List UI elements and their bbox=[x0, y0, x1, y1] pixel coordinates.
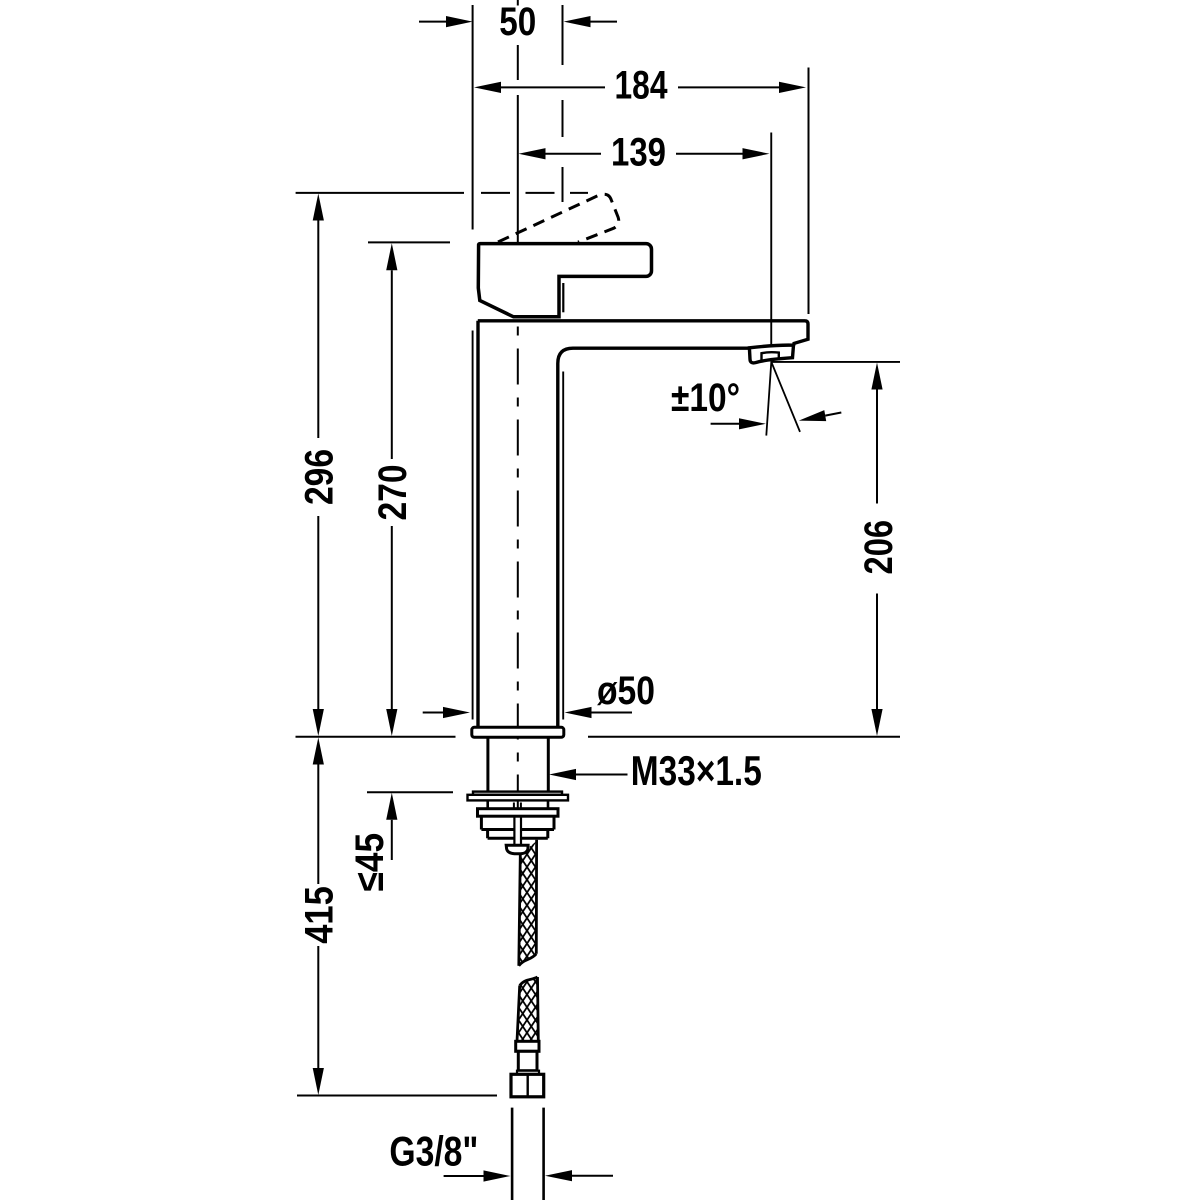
dimension 184 bbox=[474, 64, 806, 108]
column left edge bbox=[476, 321, 479, 728]
aerator outlet bbox=[762, 352, 779, 360]
svg-text:G3/8": G3/8" bbox=[389, 1128, 478, 1175]
dimension max 45 deck thickness bbox=[348, 793, 398, 892]
dimension M33x1.5 thread bbox=[549, 747, 762, 794]
svg-text:296: 296 bbox=[298, 449, 342, 505]
base flange bbox=[472, 727, 564, 737]
wire: reference line countertop (y=736.7) bbox=[296, 736, 901, 738]
threaded shank bbox=[488, 737, 548, 791]
flexible hose lower segment bbox=[517, 977, 538, 1041]
wire: extension line left (x=472.6, shared by dim 50 and dim 184) bbox=[472, 5, 474, 230]
washer plate lower bbox=[468, 795, 569, 801]
dimension 206 bbox=[857, 363, 901, 737]
svg-text:139: 139 bbox=[611, 130, 666, 174]
hex nut face line bbox=[527, 1074, 529, 1097]
spout top and body outline bbox=[478, 321, 808, 346]
wire: reference line top of open handle (y=192.9) bbox=[296, 192, 588, 194]
wire: extension line centerline top (x=517.8) bbox=[517, 0, 519, 243]
pull rod stubs bbox=[514, 803, 521, 809]
svg-text:270: 270 bbox=[371, 465, 415, 521]
dimension 270 bbox=[371, 243, 415, 736]
svg-text:50: 50 bbox=[499, 0, 536, 44]
washer plate upper bbox=[473, 792, 562, 795]
dimension diameter 50 bbox=[423, 669, 655, 718]
hose ferrule bbox=[516, 1041, 539, 1051]
mounting nut step 2 bbox=[481, 816, 554, 829]
mounting nut step 1 bbox=[478, 809, 559, 817]
mounting nut step 3 bbox=[488, 830, 548, 839]
svg-text:184: 184 bbox=[615, 64, 669, 108]
wire: reference line aerator outlet level (y=361.9) bbox=[771, 361, 900, 363]
wire: reference line hose end (y=1095.5) bbox=[297, 1095, 497, 1097]
wire: extension line water stream (x=771.25) bbox=[770, 133, 772, 362]
dimension G3/8 inch connection bbox=[389, 1128, 613, 1182]
wire: reference line top of closed handle (y=242.4) bbox=[368, 241, 450, 243]
shank stubs below washer bbox=[488, 800, 548, 808]
flexible hose upper segment bbox=[519, 840, 537, 966]
column silhouette lines (diameter 50) bbox=[473, 331, 564, 720]
svg-text:415: 415 bbox=[298, 886, 342, 944]
hex nut collar band bbox=[517, 1071, 539, 1075]
dimension 50 top bbox=[419, 0, 617, 44]
wire: extension line right of dim 50 (x=562.5) bbox=[562, 5, 564, 202]
pull rod knob bbox=[506, 845, 528, 853]
handle cartridge inner edge bbox=[562, 283, 564, 312]
hose sleeve bbox=[518, 1051, 537, 1070]
svg-text:±10°: ±10° bbox=[671, 376, 740, 420]
dimension 415 bbox=[298, 738, 342, 1096]
svg-text:M33×1.5: M33×1.5 bbox=[631, 747, 762, 794]
lever handle closed position bbox=[478, 244, 651, 317]
svg-text:ø50: ø50 bbox=[597, 669, 655, 713]
lever handle open position (dashed) bbox=[498, 194, 619, 242]
svg-text:206: 206 bbox=[857, 520, 901, 575]
node: faucet centerline (dashed) bbox=[517, 243, 519, 821]
hex nut G3/8 bbox=[511, 1074, 544, 1097]
dimension plus-minus 10 degree swivel bbox=[671, 362, 841, 436]
wire: extension line spout right (x=808.5) bbox=[808, 68, 810, 315]
svg-text:≤45: ≤45 bbox=[348, 833, 392, 892]
wire: reference line max deck thickness (y=792.2) bbox=[367, 791, 453, 793]
connection pipe bbox=[512, 1108, 544, 1200]
dimension 296 bbox=[298, 194, 342, 737]
dimension 139 bbox=[519, 130, 770, 174]
pull rod bbox=[514, 816, 521, 845]
spout underside and column right edge bbox=[558, 348, 749, 727]
aerator housing bbox=[749, 345, 793, 363]
